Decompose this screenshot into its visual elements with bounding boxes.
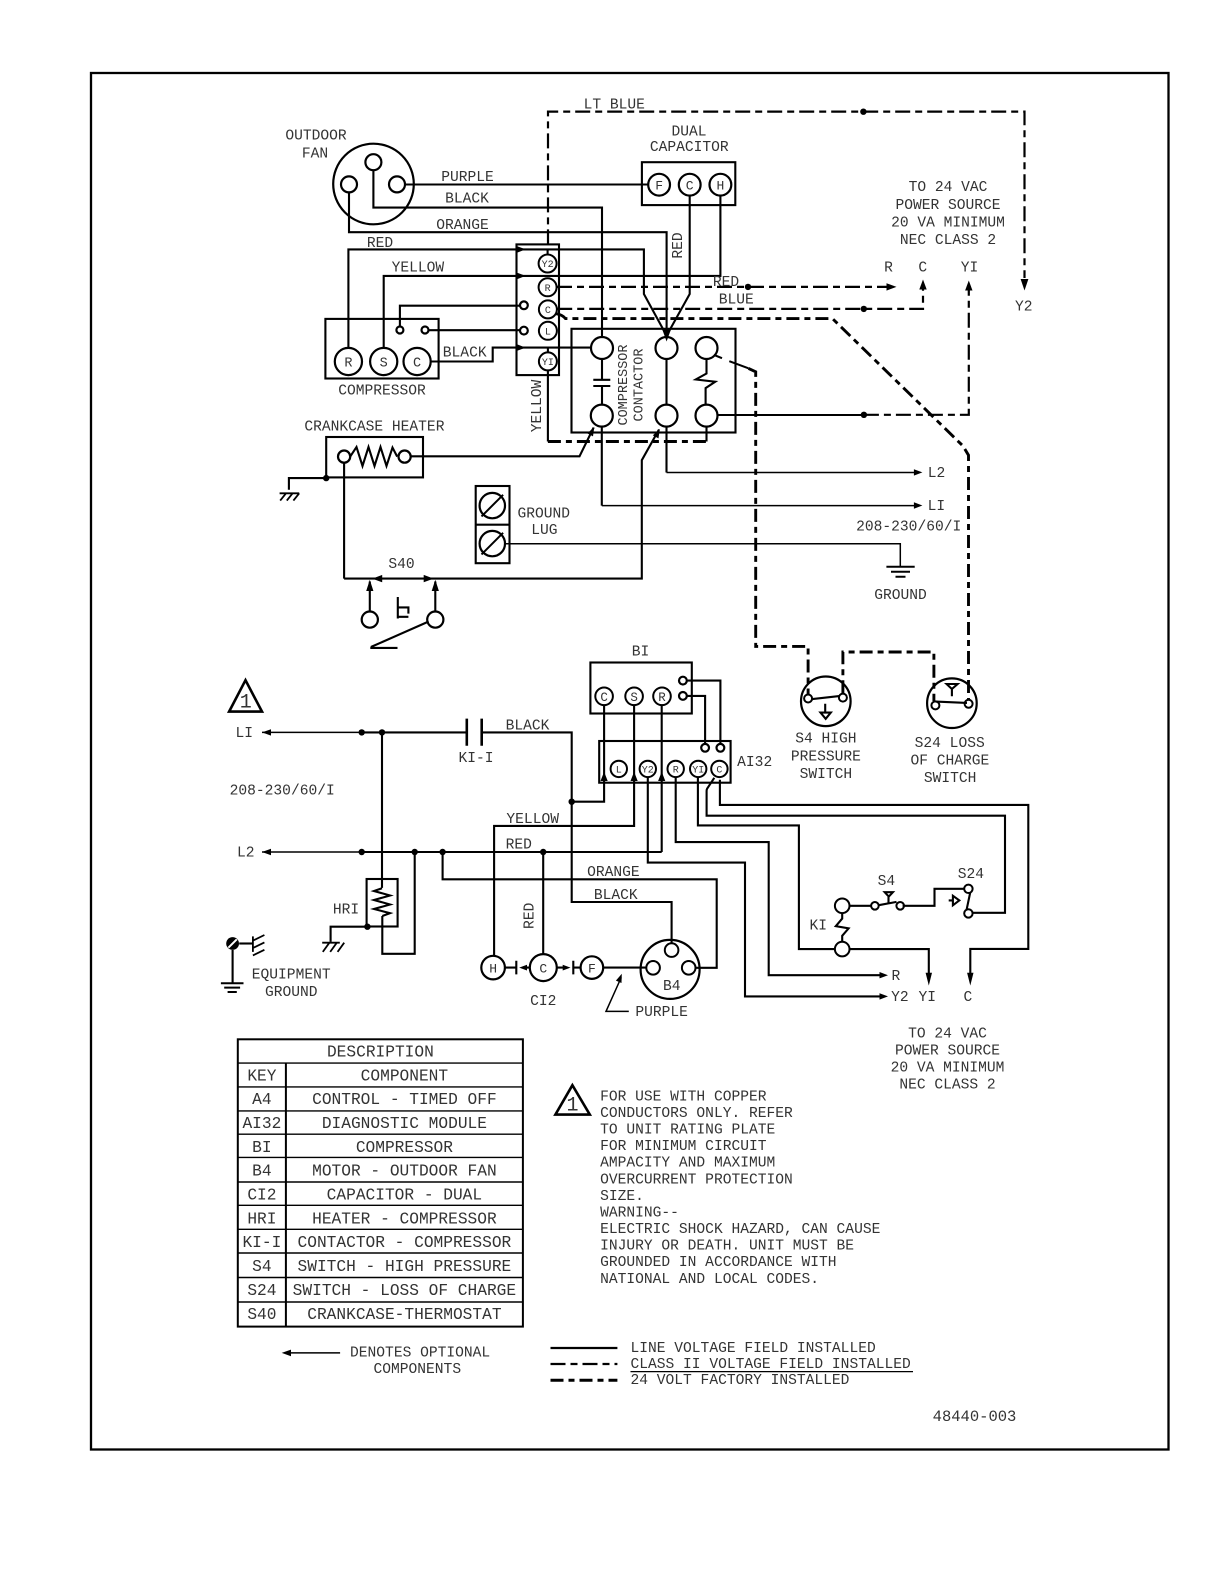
svg-text:CAPACITOR - DUAL: CAPACITOR - DUAL <box>327 1187 482 1205</box>
svg-text:OVERCURRENT PROTECTION: OVERCURRENT PROTECTION <box>600 1173 793 1189</box>
svg-text:COMPONENT: COMPONENT <box>361 1067 449 1085</box>
svg-text:F: F <box>588 961 596 976</box>
svg-text:ORANGE: ORANGE <box>436 218 489 234</box>
svg-text:R: R <box>892 969 901 985</box>
svg-text:CI2: CI2 <box>247 1187 276 1205</box>
svg-text:BI: BI <box>632 645 650 661</box>
svg-text:RED: RED <box>713 275 740 291</box>
svg-text:WARNING--: WARNING-- <box>600 1205 679 1221</box>
svg-text:ORANGE: ORANGE <box>587 865 640 881</box>
svg-text:FOR USE WITH COPPER: FOR USE WITH COPPER <box>600 1089 767 1105</box>
svg-text:LI: LI <box>236 726 254 742</box>
svg-text:RED: RED <box>523 902 539 929</box>
svg-text:BI: BI <box>252 1139 271 1157</box>
svg-text:A4: A4 <box>252 1091 271 1109</box>
svg-text:HEATER - COMPRESSOR: HEATER - COMPRESSOR <box>312 1210 497 1228</box>
svg-text:S24: S24 <box>247 1282 276 1300</box>
svg-text:KI: KI <box>809 918 827 934</box>
svg-text:RED: RED <box>506 837 533 853</box>
svg-text:NEC CLASS 2: NEC CLASS 2 <box>900 233 996 249</box>
svg-text:GROUND: GROUND <box>518 507 571 523</box>
svg-text:C: C <box>539 962 547 977</box>
svg-text:CI2: CI2 <box>530 994 556 1010</box>
svg-text:HRI: HRI <box>247 1210 276 1228</box>
svg-text:CONTROL - TIMED OFF: CONTROL - TIMED OFF <box>312 1091 497 1109</box>
svg-text:FOR MINIMUM CIRCUIT: FOR MINIMUM CIRCUIT <box>600 1139 767 1155</box>
svg-text:COMPRESSOR: COMPRESSOR <box>617 344 632 425</box>
svg-text:C: C <box>918 261 927 277</box>
svg-text:SWITCH - LOSS OF CHARGE: SWITCH - LOSS OF CHARGE <box>293 1282 516 1300</box>
svg-text:S4 HIGH: S4 HIGH <box>795 732 856 748</box>
svg-text:C: C <box>545 306 551 317</box>
svg-text:TO 24 VAC: TO 24 VAC <box>908 1027 987 1043</box>
svg-text:L2: L2 <box>237 846 255 862</box>
svg-text:S: S <box>380 356 388 371</box>
svg-text:YI: YI <box>542 358 554 369</box>
svg-text:COMPRESSOR: COMPRESSOR <box>356 1139 453 1157</box>
svg-text:LINE VOLTAGE FIELD INSTALLED: LINE VOLTAGE FIELD INSTALLED <box>631 1341 876 1357</box>
svg-text:Y2: Y2 <box>1015 299 1033 315</box>
svg-text:YELLOW: YELLOW <box>530 379 546 432</box>
svg-text:BLACK: BLACK <box>443 345 487 361</box>
svg-text:KEY: KEY <box>247 1067 276 1085</box>
svg-text:SWITCH - HIGH PRESSURE: SWITCH - HIGH PRESSURE <box>298 1258 512 1276</box>
svg-text:PRESSURE: PRESSURE <box>791 749 861 765</box>
svg-text:FAN: FAN <box>302 147 328 163</box>
svg-text:S4: S4 <box>878 874 896 890</box>
svg-text:YI: YI <box>918 990 936 1006</box>
svg-text:C: C <box>600 691 608 705</box>
svg-text:BLACK: BLACK <box>594 888 638 904</box>
svg-text:RED: RED <box>367 236 394 252</box>
svg-text:SIZE.: SIZE. <box>600 1189 644 1205</box>
svg-text:CRANKCASE HEATER: CRANKCASE HEATER <box>304 419 444 435</box>
svg-text:DENOTES OPTIONAL: DENOTES OPTIONAL <box>350 1345 490 1361</box>
svg-text:20 VA MINIMUM: 20 VA MINIMUM <box>891 1061 1005 1077</box>
svg-text:CONTACTOR - COMPRESSOR: CONTACTOR - COMPRESSOR <box>298 1234 512 1252</box>
svg-text:CONDUCTORS ONLY. REFER: CONDUCTORS ONLY. REFER <box>600 1106 793 1122</box>
svg-text:OUTDOOR: OUTDOOR <box>285 129 347 145</box>
svg-text:KI-I: KI-I <box>458 751 493 767</box>
svg-text:NEC CLASS 2: NEC CLASS 2 <box>899 1078 995 1094</box>
svg-text:GROUND: GROUND <box>874 588 927 604</box>
svg-text:R: R <box>884 261 893 277</box>
svg-text:DESCRIPTION: DESCRIPTION <box>327 1044 434 1062</box>
svg-text:AMPACITY AND MAXIMUM: AMPACITY AND MAXIMUM <box>600 1156 775 1172</box>
svg-text:PURPLE: PURPLE <box>441 170 494 186</box>
svg-text:F: F <box>655 178 663 193</box>
svg-text:R: R <box>344 356 352 371</box>
svg-text:Y2: Y2 <box>542 260 554 271</box>
svg-text:Y2: Y2 <box>642 765 654 776</box>
svg-text:CLASS II VOLTAGE FIELD INSTALL: CLASS II VOLTAGE FIELD INSTALLED <box>631 1357 911 1373</box>
svg-text:C: C <box>716 765 722 776</box>
svg-text:GROUNDED IN ACCORDANCE WITH: GROUNDED IN ACCORDANCE WITH <box>600 1255 836 1271</box>
svg-text:S40: S40 <box>247 1306 276 1324</box>
svg-text:S24 LOSS: S24 LOSS <box>915 736 985 752</box>
svg-text:LUG: LUG <box>531 523 557 539</box>
svg-text:1: 1 <box>240 692 252 715</box>
svg-text:Y2: Y2 <box>891 990 909 1006</box>
svg-text:R: R <box>673 765 679 776</box>
svg-text:YI: YI <box>692 765 704 776</box>
svg-text:ELECTRIC SHOCK HAZARD, CAN CAU: ELECTRIC SHOCK HAZARD, CAN CAUSE <box>600 1222 880 1238</box>
svg-text:RED: RED <box>671 232 687 259</box>
svg-text:L2: L2 <box>928 466 946 482</box>
svg-text:S40: S40 <box>388 557 414 573</box>
svg-text:SWITCH: SWITCH <box>924 771 977 787</box>
svg-text:AI32: AI32 <box>242 1115 281 1133</box>
svg-text:C: C <box>964 990 973 1006</box>
svg-text:CRANKCASE-THERMOSTAT: CRANKCASE-THERMOSTAT <box>307 1306 502 1324</box>
svg-text:S: S <box>630 691 638 705</box>
svg-text:OF CHARGE: OF CHARGE <box>910 753 989 769</box>
svg-text:BLUE: BLUE <box>719 292 754 308</box>
svg-text:CAPACITOR: CAPACITOR <box>650 140 729 156</box>
svg-text:CONTACTOR: CONTACTOR <box>633 349 648 422</box>
svg-text:L: L <box>616 765 622 776</box>
svg-text:POWER SOURCE: POWER SOURCE <box>895 1044 1000 1060</box>
svg-text:TO UNIT RATING PLATE: TO UNIT RATING PLATE <box>600 1122 775 1138</box>
svg-text:KI-I: KI-I <box>242 1234 281 1252</box>
svg-text:AI32: AI32 <box>737 755 772 771</box>
svg-text:1: 1 <box>566 1095 578 1118</box>
svg-text:POWER SOURCE: POWER SOURCE <box>895 198 1000 214</box>
svg-text:NATIONAL AND LOCAL CODES.: NATIONAL AND LOCAL CODES. <box>600 1272 819 1288</box>
svg-text:TO 24 VAC: TO 24 VAC <box>909 180 988 196</box>
svg-text:C: C <box>413 356 421 371</box>
svg-text:HRI: HRI <box>333 903 359 919</box>
svg-text:DIAGNOSTIC MODULE: DIAGNOSTIC MODULE <box>322 1115 487 1133</box>
svg-text:208-230/60/I: 208-230/60/I <box>856 520 961 536</box>
svg-text:COMPRESSOR: COMPRESSOR <box>338 384 426 400</box>
svg-text:YI: YI <box>961 261 979 277</box>
svg-text:PURPLE: PURPLE <box>635 1005 688 1021</box>
svg-text:COMPONENTS: COMPONENTS <box>374 1362 462 1378</box>
svg-text:24 VOLT FACTORY INSTALLED: 24 VOLT FACTORY INSTALLED <box>631 1373 850 1389</box>
svg-text:H: H <box>716 178 724 193</box>
svg-text:B4: B4 <box>252 1163 271 1181</box>
svg-text:LI: LI <box>928 499 946 515</box>
svg-text:48440-003: 48440-003 <box>933 1408 1017 1426</box>
svg-text:H: H <box>489 961 497 976</box>
svg-text:R: R <box>658 691 666 705</box>
svg-text:LT BLUE: LT BLUE <box>584 98 645 114</box>
svg-text:EQUIPMENT: EQUIPMENT <box>252 967 331 983</box>
svg-text:SWITCH: SWITCH <box>800 767 853 783</box>
svg-text:YELLOW: YELLOW <box>392 260 445 276</box>
svg-text:BLACK: BLACK <box>445 192 489 208</box>
svg-text:20 VA MINIMUM: 20 VA MINIMUM <box>891 216 1005 232</box>
svg-text:MOTOR - OUTDOOR FAN: MOTOR - OUTDOOR FAN <box>312 1163 497 1181</box>
svg-text:INJURY OR DEATH. UNIT MUST BE: INJURY OR DEATH. UNIT MUST BE <box>600 1239 854 1255</box>
svg-text:DUAL: DUAL <box>671 125 706 141</box>
svg-text:208-230/60/I: 208-230/60/I <box>230 784 335 800</box>
svg-text:S24: S24 <box>958 867 985 883</box>
svg-text:R: R <box>545 284 551 295</box>
svg-text:BLACK: BLACK <box>506 719 550 735</box>
svg-text:C: C <box>686 178 694 193</box>
svg-text:YELLOW: YELLOW <box>506 812 559 828</box>
svg-text:GROUND: GROUND <box>265 985 318 1001</box>
svg-text:B4: B4 <box>663 979 681 995</box>
svg-text:S4: S4 <box>252 1258 271 1276</box>
svg-text:L: L <box>545 327 551 338</box>
